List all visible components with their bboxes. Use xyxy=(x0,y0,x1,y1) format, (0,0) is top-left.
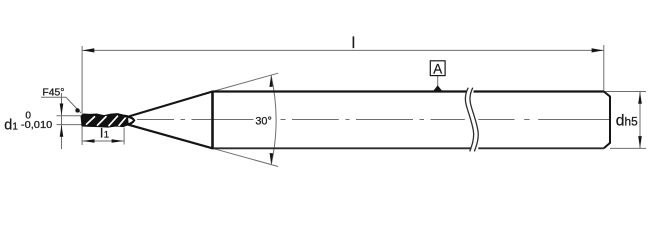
svg-text:30°: 30° xyxy=(255,115,271,127)
svg-text:dh5: dh5 xyxy=(616,112,638,129)
svg-text:A: A xyxy=(433,61,442,76)
svg-text:-0,010: -0,010 xyxy=(21,119,53,131)
svg-text:l: l xyxy=(352,35,356,52)
svg-text:F45°: F45° xyxy=(42,88,64,99)
